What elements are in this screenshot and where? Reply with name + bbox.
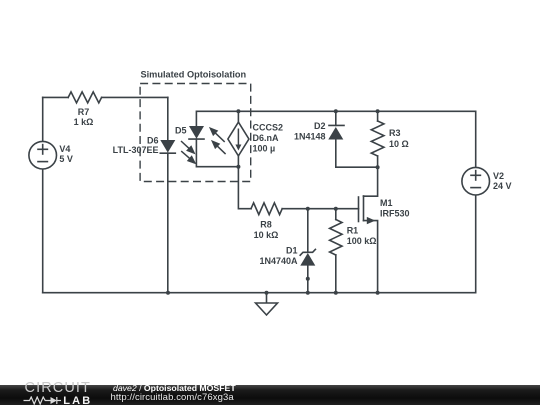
svg-text:R3: R3 xyxy=(389,128,401,138)
svg-text:Simulated Optoisolation: Simulated Optoisolation xyxy=(141,69,247,79)
svg-text:24 V: 24 V xyxy=(493,181,512,191)
svg-text:LTL-307EE: LTL-307EE xyxy=(113,145,159,155)
svg-text:1N4740A: 1N4740A xyxy=(259,256,298,266)
svg-text:D6: D6 xyxy=(147,136,159,146)
svg-text:D6.nA: D6.nA xyxy=(253,133,280,143)
svg-text:R1: R1 xyxy=(347,225,359,235)
svg-text:R8: R8 xyxy=(260,219,272,229)
svg-text:1N4148: 1N4148 xyxy=(294,131,326,141)
svg-text:10 Ω: 10 Ω xyxy=(389,139,409,149)
svg-text:CCCS2: CCCS2 xyxy=(253,123,284,133)
svg-text:V4: V4 xyxy=(59,144,70,154)
svg-text:5 V: 5 V xyxy=(59,154,73,164)
svg-text:100 µ: 100 µ xyxy=(253,143,276,153)
svg-text:1 kΩ: 1 kΩ xyxy=(74,117,94,127)
svg-text:IRF530: IRF530 xyxy=(380,208,410,218)
svg-text:10 kΩ: 10 kΩ xyxy=(254,230,279,240)
svg-text:V2: V2 xyxy=(493,171,504,181)
svg-text:R7: R7 xyxy=(78,107,90,117)
svg-text:D2: D2 xyxy=(314,121,326,131)
svg-text:D5: D5 xyxy=(175,126,187,136)
svg-text:M1: M1 xyxy=(380,198,393,208)
svg-text:D1: D1 xyxy=(286,246,298,256)
svg-text:100 kΩ: 100 kΩ xyxy=(347,236,377,246)
